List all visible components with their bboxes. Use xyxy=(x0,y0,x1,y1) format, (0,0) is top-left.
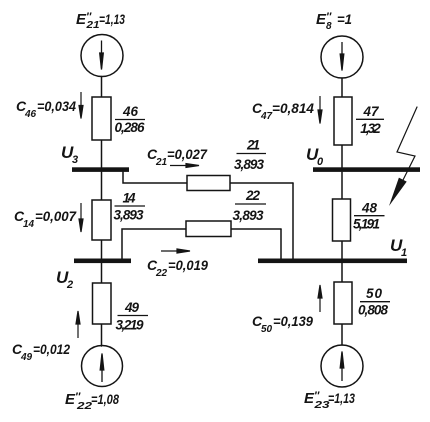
svg-text:=0,814: =0,814 xyxy=(272,100,314,116)
svg-text:2: 2 xyxy=(66,279,73,291)
svg-text:1,32: 1,32 xyxy=(360,121,381,136)
svg-text:=0,019: =0,019 xyxy=(168,257,208,273)
svg-text:3,893: 3,893 xyxy=(234,157,264,172)
svg-text:14: 14 xyxy=(123,191,136,206)
svg-text:46: 46 xyxy=(24,109,37,120)
svg-text:22: 22 xyxy=(245,188,260,203)
svg-text:=0,007: =0,007 xyxy=(35,208,77,224)
svg-text:=0,139: =0,139 xyxy=(273,313,313,329)
svg-text:21: 21 xyxy=(85,20,100,31)
svg-text:47: 47 xyxy=(363,104,380,119)
svg-text:=0,027: =0,027 xyxy=(167,146,208,162)
svg-text:3,893: 3,893 xyxy=(114,208,144,223)
svg-text:1: 1 xyxy=(401,247,407,259)
svg-text:22: 22 xyxy=(155,268,168,279)
svg-text:46: 46 xyxy=(122,104,138,119)
svg-text:48: 48 xyxy=(361,201,377,216)
svg-text:50: 50 xyxy=(261,324,273,335)
svg-text:3,219: 3,219 xyxy=(116,318,144,333)
svg-text:49: 49 xyxy=(20,352,33,363)
svg-text:=0,034: =0,034 xyxy=(37,98,76,114)
svg-text:50: 50 xyxy=(366,286,382,301)
svg-text:3,893: 3,893 xyxy=(233,208,264,223)
svg-text:5,191: 5,191 xyxy=(353,217,380,232)
svg-text:0,808: 0,808 xyxy=(358,303,388,318)
svg-text:21: 21 xyxy=(246,138,260,153)
svg-text:0,286: 0,286 xyxy=(115,120,145,135)
svg-text:=1,13: =1,13 xyxy=(99,11,125,27)
svg-text:49: 49 xyxy=(124,300,139,315)
svg-text:3: 3 xyxy=(72,154,78,166)
svg-text:21: 21 xyxy=(155,157,168,168)
svg-text:0: 0 xyxy=(317,156,324,168)
svg-text:=1,08: =1,08 xyxy=(91,391,119,407)
svg-text:47: 47 xyxy=(260,111,273,122)
svg-text:14: 14 xyxy=(23,219,35,230)
svg-text:8: 8 xyxy=(326,21,332,32)
svg-text:=0,012: =0,012 xyxy=(33,341,70,357)
svg-text:=1,13: =1,13 xyxy=(328,390,355,406)
svg-text:=1: =1 xyxy=(337,11,352,27)
